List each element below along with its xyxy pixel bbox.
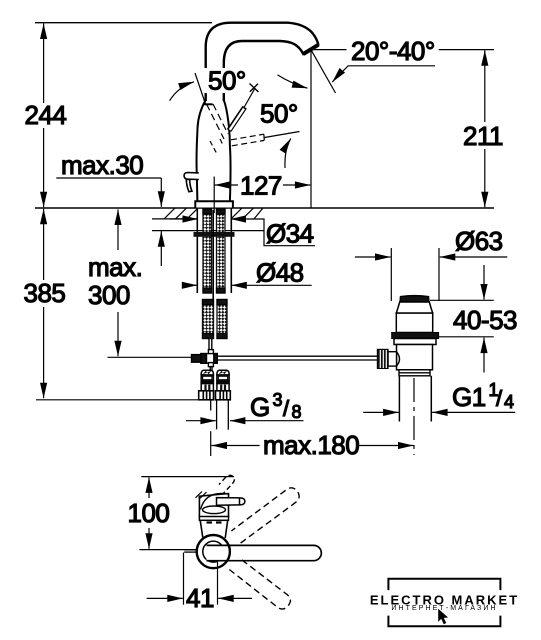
- plan inner circle: [203, 541, 224, 562]
- drain rod knurled knob: [377, 349, 388, 368]
- base escutcheon: [195, 201, 233, 207]
- 20°-40° lower leader with arrow to tilted spout line: [332, 66, 435, 82]
- hidden hose dashed stub: [210, 139, 224, 154]
- plan lever rod: [207, 545, 322, 560]
- braided hose lower left: [203, 300, 214, 339]
- svg-text:50°: 50°: [208, 66, 246, 96]
- dimension 127 line with arrows: [215, 184, 311, 186]
- pop-up rod connector block: [192, 350, 218, 370]
- dimension max.180 line with arrows: [212, 445, 414, 447]
- deck max-thickness line y=230.6: [152, 230, 264, 232]
- dimension Ø48 arrows: [186, 284, 312, 286]
- lever horizontal axis line: [265, 132, 300, 138]
- svg-text:8: 8: [292, 402, 302, 422]
- svg-text:G1: G1: [452, 382, 486, 412]
- plan pop-up rod tick left of boss: [184, 550, 196, 552]
- max.180 extension line below supply: [210, 431, 212, 456]
- dimension 211 vertical line with arrows: [484, 50, 486, 207]
- svg-text:Ø48: Ø48: [256, 258, 304, 288]
- svg-text:max.30: max.30: [61, 150, 143, 180]
- svg-text:50°: 50°: [260, 99, 298, 129]
- 40-53 upper arrow: [483, 265, 485, 300]
- swivel arc with arrow near spout tip: [278, 75, 308, 88]
- max.30 lower arrow below deck: [160, 231, 162, 266]
- lever horizontal dashed rod: [231, 134, 264, 146]
- lever axis leader from cross: [244, 89, 255, 108]
- plan body sides to boss: [200, 520, 228, 538]
- lever collar line on body top: [205, 103, 213, 105]
- plan lever boss circle: [197, 535, 230, 568]
- max.300 dimension line with arrows: [117, 210, 119, 357]
- 40-53 upper reference line: [430, 299, 494, 301]
- dimension G3/8 arrows: [186, 420, 304, 422]
- svg-text:244: 244: [25, 100, 67, 130]
- svg-text:300: 300: [88, 280, 130, 310]
- dimension G1 1/4 arrows: [363, 411, 515, 413]
- spout tip vertical extension line: [310, 52, 312, 208]
- plan view bottom reference line: [139, 549, 196, 551]
- deck section hatching left: [164, 208, 198, 219]
- dimension 385 vertical line with arrows: [43, 209, 45, 398]
- dimension text G1 1/4: [452, 380, 514, 412]
- logo cursor arrow: [438, 609, 448, 624]
- svg-text:G: G: [250, 392, 270, 422]
- lever angle arc right: [285, 139, 291, 169]
- Ø63 extension lines: [391, 248, 439, 301]
- svg-text:Ø63: Ø63: [455, 226, 503, 256]
- drain lower body: [397, 345, 433, 370]
- plan dashed lever upper: [231, 488, 299, 543]
- svg-text:41: 41: [186, 583, 214, 613]
- tilted spout axis line from tip: [312, 51, 336, 93]
- supply hose connector right: [217, 370, 229, 391]
- dimension text G3/8: [250, 390, 302, 422]
- 41 extension lines: [184, 553, 218, 605]
- plan body joint dark ticks: [207, 521, 222, 523]
- plan spout tip dashed rotated: [219, 475, 234, 495]
- dimension 244 vertical line with arrows: [43, 24, 45, 208]
- supply hose connector left: [201, 370, 213, 391]
- max.30 leader underline: [56, 178, 161, 207]
- braided hose lower right: [217, 300, 227, 339]
- dimension Ø63 arrows: [355, 256, 507, 258]
- dimension Ø34 arrows on shank: [170, 219, 315, 246]
- drain centre line: [413, 378, 415, 455]
- braided hose upper left: [203, 209, 212, 293]
- dimension text 50° first: [203, 68, 249, 93]
- hidden cartridge dashed lines: [207, 104, 229, 139]
- drain body groove rings: [399, 370, 430, 376]
- drain plug flare: [396, 302, 432, 313]
- bottom reference line of 385 (supply connector bottom): [36, 399, 199, 401]
- drain upper body: [396, 313, 432, 332]
- drain tailpipe: [399, 376, 431, 422]
- svg-text:max.180: max.180: [263, 430, 359, 460]
- drain plug cap: [400, 296, 429, 302]
- svg-text:Ø34: Ø34: [266, 219, 314, 249]
- spout and upper tube outline: [206, 23, 319, 101]
- countertop deck line: [35, 207, 494, 209]
- lever angle arc 50 left: [170, 82, 194, 101]
- 40-53 lower reference line: [439, 336, 494, 338]
- drain flange: [394, 339, 436, 345]
- connector base nut left: [199, 391, 214, 400]
- svg-text:100: 100: [128, 498, 170, 528]
- svg-text:40-53: 40-53: [453, 305, 517, 335]
- plan spout bend arcs: [201, 493, 226, 513]
- connector base nut right: [216, 391, 231, 400]
- logo top bracket: [388, 579, 500, 590]
- plan view top reference line: [141, 476, 234, 478]
- plan dashed lever lower: [229, 558, 290, 610]
- plan temperature lever pin: [217, 498, 245, 506]
- deck section hatching right: [231, 208, 263, 219]
- dimension 100 vertical line with arrows: [148, 477, 150, 548]
- plan body joint band: [199, 517, 228, 521]
- svg-text:/: /: [496, 386, 503, 411]
- lever tilted axis line: [195, 73, 206, 104]
- 40-53 lower arrow: [483, 338, 485, 373]
- pop-up vertical rod below hoses: [209, 339, 212, 350]
- supply pipe tails: [211, 400, 229, 430]
- mounting nut dark band: [194, 232, 235, 237]
- braided hose upper right: [217, 209, 226, 293]
- lever raised rod: [229, 107, 245, 130]
- pop-up rod horizontal tail line left: [108, 356, 195, 358]
- plan diagonal tick marks top left: [196, 492, 207, 499]
- svg-text:4: 4: [504, 392, 514, 412]
- svg-text:385: 385: [24, 278, 66, 308]
- pop-up rod centre line: [212, 210, 214, 300]
- svg-text:127: 127: [240, 171, 282, 201]
- logo bottom bracket: [388, 616, 500, 627]
- deck bottom line left segment: [152, 218, 197, 220]
- dimension 41 arrows: [147, 597, 252, 599]
- small lever handle on left of body: [184, 173, 199, 192]
- svg-text:max.: max.: [88, 252, 142, 282]
- reference top line of spout height: [35, 22, 212, 24]
- faucet body outline: [196, 100, 230, 201]
- shank outer tube below deck: [197, 208, 231, 293]
- pop-up rod horizontal to drain: [218, 356, 378, 360]
- plan spout column: [199, 494, 228, 518]
- svg-text:ИНТЕРНЕТ-МАГАЗИН: ИНТЕРНЕТ-МАГАЗИН: [391, 605, 497, 612]
- svg-text:/: /: [283, 396, 290, 421]
- pivot cross marker: [250, 84, 259, 93]
- dimension 20°-40° line: [312, 49, 494, 51]
- svg-text:211: 211: [463, 121, 503, 151]
- drain rod port: [388, 352, 400, 366]
- svg-text:20°-40°: 20°-40°: [351, 36, 435, 66]
- faucet centre extension line for 127: [213, 177, 215, 214]
- drain seal ring: [392, 333, 439, 339]
- svg-text:3: 3: [273, 390, 283, 410]
